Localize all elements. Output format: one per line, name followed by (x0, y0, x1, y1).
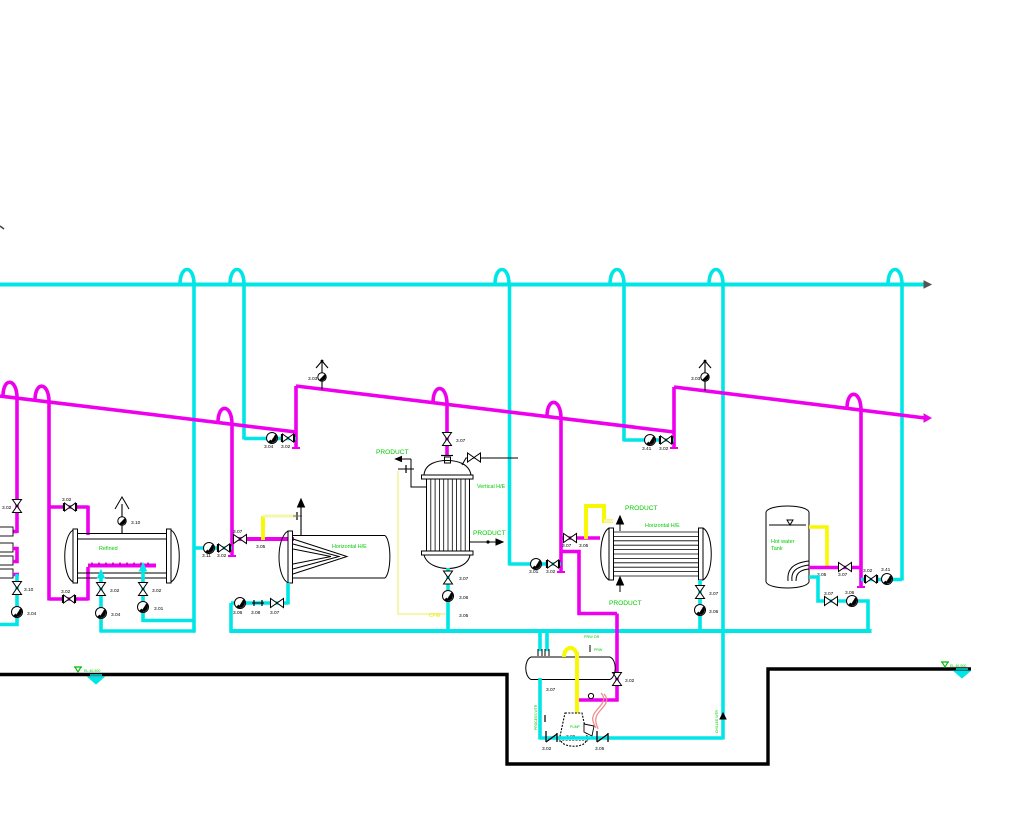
HE2 bottom product label (609, 600, 642, 607)
svg-text:EL.46.500: EL.46.500 (950, 664, 966, 668)
magenta riser stub tick (292, 447, 300, 449)
label 3.07 (456, 438, 466, 444)
HE2 yellow loop (586, 506, 613, 539)
HE2 left tube sheet (609, 528, 614, 580)
U1 right vent valve (468, 453, 481, 462)
CFW pale yellow line (398, 471, 446, 614)
battery limit boundary line (0, 669, 971, 764)
label 3.05 (459, 613, 469, 619)
green rotated note (process water) (534, 704, 538, 730)
header vent arrow at x=322 (308, 360, 328, 390)
green rotated note (chilled water) (715, 709, 719, 733)
svg-text:3.10: 3.10 (131, 520, 141, 526)
instrument tick near drum outlet (544, 715, 546, 722)
vessel V1 left head arc (65, 530, 73, 582)
svg-text:PRODUCT: PRODUCT (609, 600, 642, 607)
pump 3.11 (204, 543, 215, 554)
valve 3.02 y440 (660, 436, 673, 444)
cyan pump line y440 (624, 438, 674, 442)
svg-text:3.05: 3.05 (579, 543, 589, 549)
svg-text:3.06: 3.06 (845, 590, 855, 596)
pump 3.41 y440 (645, 435, 656, 446)
HE2 magenta product path (561, 552, 617, 614)
cyan header jump loop at x=902 (888, 270, 902, 285)
manifold stub rect 1 (0, 527, 13, 536)
magenta drop stub tick x561 (557, 571, 565, 573)
HE2 bottom cyan pipe (698, 580, 702, 633)
tank cyan line to header drop (861, 578, 902, 582)
pump 3.04 y438 (267, 433, 278, 444)
HE1 vent line (300, 507, 302, 535)
HE2 magenta drop x617 (615, 614, 619, 702)
magenta drop pipe x17 (15, 398, 19, 533)
cyan bottom u-run (100, 629, 196, 633)
svg-text:3.04: 3.04 (27, 611, 37, 617)
U1 bottom cyan pipe (446, 568, 450, 633)
tank heating coil (788, 561, 809, 581)
magenta riser at x=674 (672, 387, 676, 448)
label 3.07 (709, 591, 719, 597)
label 3.02 (281, 444, 291, 450)
cyan branch pipe to refined-vessel area (192, 284, 196, 633)
HE1 cyan outlet down (286, 583, 290, 605)
HE1 label (332, 544, 367, 550)
svg-text:3.07: 3.07 (233, 529, 243, 535)
cyan stub1 pipe (99, 575, 103, 632)
HE1 pale yellow horizontal (263, 514, 296, 517)
label 3.02 (2, 505, 12, 511)
HE1 yellow vertical (261, 516, 265, 540)
magenta header loop at x=861 (847, 394, 861, 410)
label 3.05 (817, 572, 827, 578)
magenta riser stub tick 674 (670, 447, 678, 449)
label 3.02 (61, 589, 71, 595)
HE2 top product arrow (617, 516, 624, 531)
HE1 chevron mid (293, 544, 339, 569)
U1 left product arrow (396, 457, 412, 462)
cyan pump line y438 (244, 437, 296, 441)
cyan bottom main header (230, 629, 872, 633)
label 3.07 (233, 529, 243, 535)
svg-text:3.01: 3.01 (529, 569, 539, 575)
vessel V1 left end plate (73, 529, 78, 583)
svg-text:CFW: CFW (429, 613, 441, 619)
drum inlet stub 2 (545, 632, 549, 651)
magenta link to manifold (12, 530, 17, 534)
pump 3.01 stub2 (138, 602, 149, 613)
small circle fitting (588, 693, 593, 698)
magenta header loop at x=232 (218, 408, 232, 424)
valve 3.02 on drop x17 (13, 500, 22, 513)
svg-text:PRODUCT: PRODUCT (473, 530, 506, 537)
cyan branch pipe long (chilled water return) (721, 284, 725, 740)
svg-text:Refined: Refined (99, 546, 118, 552)
label 3.11 (202, 553, 211, 559)
cyan link stub2 to main drop (143, 619, 194, 623)
svg-text:PRW DR: PRW DR (584, 635, 600, 639)
valve 3.02 on branch y507 (64, 503, 77, 511)
label 3.10 (131, 520, 141, 526)
label 3.02 (863, 568, 873, 574)
svg-text:3.05: 3.05 (256, 544, 266, 550)
magenta branch y507 (49, 505, 88, 509)
magenta drop pipe x561 (559, 418, 563, 572)
svg-text:3.03: 3.03 (308, 376, 318, 382)
svg-text:3.02: 3.02 (110, 588, 120, 594)
U1 bottom dome (424, 555, 470, 569)
sparger ticks (92, 563, 148, 566)
U1 left tap lines (398, 459, 426, 487)
svg-text:3.02: 3.02 (2, 505, 12, 511)
svg-text:3.10: 3.10 (24, 587, 34, 593)
tank bottom cyan outlet (809, 577, 868, 632)
svg-text:3.02: 3.02 (659, 446, 669, 452)
svg-text:3.06: 3.06 (459, 595, 469, 601)
HE1 chevron outer (293, 539, 347, 574)
manifold stub rect 3 (0, 556, 13, 565)
tank bottom head (766, 582, 809, 588)
label 3.07 (459, 576, 469, 582)
tank shell sides (766, 512, 809, 582)
pump symbol 3.04 x17 (12, 607, 23, 618)
vessel V1 right head arc (171, 530, 179, 582)
manifold stub rect 4 (0, 569, 13, 578)
tank label (771, 539, 795, 552)
magenta header segment A (0, 396, 296, 432)
HE1 magenta inlet line y539 (232, 537, 294, 541)
pink flex hose (593, 693, 607, 729)
svg-text:3.07: 3.07 (838, 572, 848, 578)
svg-text:3.07: 3.07 (562, 543, 572, 549)
tank magenta inlet (809, 566, 861, 570)
label 3.02 (217, 553, 227, 559)
U1 top dome (424, 461, 471, 476)
label 3.06 (459, 595, 469, 601)
label 3.04 (111, 612, 121, 618)
label 3.01 (529, 569, 539, 575)
HE2 bottom product arrow (617, 577, 624, 592)
svg-text:3.07: 3.07 (546, 687, 556, 693)
magenta drop pipe x49 (47, 402, 51, 601)
svg-text:3.08: 3.08 (251, 610, 261, 616)
label 3.07 (562, 543, 572, 549)
cyan pump line y564 (510, 562, 562, 566)
label 3.07 drum outlet (546, 687, 556, 693)
svg-text:Hot water: Hot water (771, 539, 795, 545)
magenta manifold out link (13, 573, 19, 577)
pump 3.06 HE2 (695, 605, 706, 616)
svg-text:3.07: 3.07 (456, 438, 466, 444)
pump 3.06 HE1 (235, 598, 246, 609)
label 3.02 (625, 678, 635, 684)
magenta riser at x=296 (294, 386, 298, 448)
svg-text:3.02: 3.02 (62, 497, 72, 503)
cyan branch pipe to tank line (900, 284, 904, 581)
check valve 3.02 (546, 731, 557, 742)
drum outlet cyan drop (538, 678, 542, 740)
label 3.10 (24, 587, 34, 593)
drum nozzle flanges (538, 649, 549, 656)
svg-text:3.07: 3.07 (270, 610, 280, 616)
magenta drop stub tick x861 (857, 586, 865, 588)
label 3.05 (595, 746, 605, 752)
HE2 magenta inlet y538 (561, 536, 600, 540)
U1 product label (376, 449, 409, 456)
svg-text:CHILLED WTR: CHILLED WTR (715, 709, 719, 733)
vessel V1 shell lines (78, 534, 167, 579)
header vent arrow at x=705 (691, 360, 711, 391)
vessel V1 vent open arrow (115, 497, 129, 509)
yellow loop over drum (564, 648, 577, 657)
label 3.41 (642, 446, 652, 452)
cyan stub2 arrow into vessel (140, 563, 147, 571)
svg-text:Vertical H/E: Vertical H/E (477, 484, 506, 490)
svg-text:PROCESS WTR: PROCESS WTR (534, 704, 538, 730)
svg-text:Horizontal H/E: Horizontal H/E (645, 523, 680, 529)
vessel V1 right end plate (167, 529, 172, 583)
magenta header loop at x=447 (433, 389, 447, 405)
valve 3.02 stub2 (139, 583, 148, 596)
tank level line (769, 524, 806, 526)
svg-text:3.06: 3.06 (233, 610, 243, 616)
yellow pipe through drum to pump (575, 652, 579, 714)
valve 3.02 y438 (282, 434, 295, 442)
HE1 shell top (293, 535, 386, 537)
drum right cap (610, 657, 615, 680)
svg-text:3.02: 3.02 (542, 746, 552, 752)
magenta drop pipe x232 (230, 424, 234, 556)
valve 3.07 HE1 bottom (271, 599, 284, 608)
label 3.02 (62, 497, 72, 503)
label 3.07 (270, 610, 280, 616)
label 3.02 (110, 588, 120, 594)
U1 tube bundle (427, 479, 470, 551)
magenta drop stub tick x232 (228, 555, 236, 557)
pump 3.04 stub1 (96, 608, 107, 619)
vessel V1 vent line (121, 504, 123, 533)
HE1 chevron inner (293, 549, 331, 564)
magenta header segment B (296, 386, 674, 432)
cyan down pipe x17 (15, 574, 19, 626)
HE1 vent arrow (298, 499, 305, 507)
drum inlet stub 1 (538, 632, 542, 651)
magenta header end arrow (924, 414, 931, 422)
HE2 label (645, 523, 680, 529)
label 3.02 (542, 746, 552, 752)
HE1 cyan bottom line y603 (231, 601, 288, 605)
svg-text:3.02: 3.02 (281, 444, 291, 450)
svg-text:Tank: Tank (771, 546, 783, 552)
cyan header jump loop at x=244 (230, 270, 244, 285)
magenta header loop at x=17 (3, 382, 17, 398)
cyan pump line y548 (194, 546, 232, 550)
svg-text:3.03: 3.03 (691, 376, 701, 382)
svg-text:3.41: 3.41 (881, 567, 891, 573)
svg-text:PRODUCT: PRODUCT (625, 505, 658, 512)
cyan branch pipe to valve line y438 (242, 284, 246, 440)
stray edge mark (0, 226, 4, 229)
valve 3.02 on branch y599 (63, 595, 76, 603)
svg-text:EL.46.500: EL.46.500 (84, 669, 100, 673)
U1 right product arrow (470, 539, 503, 545)
magenta header loop at x=561 (547, 402, 561, 418)
label 3.02 (152, 588, 162, 594)
label 3.07 (838, 572, 848, 578)
svg-text:3.11: 3.11 (202, 553, 211, 559)
U1 label (477, 484, 506, 490)
HE1 tube sheet (288, 531, 293, 583)
magenta pipe up into vessel (86, 567, 90, 601)
label 3.02 (546, 569, 556, 575)
green note PRW DR (584, 635, 600, 639)
svg-text:3.05: 3.05 (459, 613, 469, 619)
tank top head (766, 506, 809, 512)
left boundary marker green (74, 667, 100, 673)
pump 3.09 body (559, 713, 594, 746)
label 3.41 (881, 567, 891, 573)
HE2 tubes (614, 532, 699, 576)
cyan branch pipe to riser-674 line (622, 284, 626, 442)
svg-text:3.02: 3.02 (546, 569, 556, 575)
svg-text:3.02: 3.02 (217, 553, 227, 559)
valve 3.02 y564 (547, 560, 560, 568)
cyan pump discharge run (540, 736, 723, 740)
magenta bottom run to pump area (576, 698, 619, 702)
cyan stub1 arrow into vessel (98, 570, 105, 578)
label 3.05 (579, 543, 589, 549)
U1 right product label (473, 530, 506, 537)
valve 3.07 tank bottom (825, 597, 838, 606)
magenta header segment C (674, 387, 925, 418)
magenta branch y599 (49, 597, 88, 601)
magenta drop pipe x447 (445, 404, 449, 456)
left boundary marker cyan (88, 675, 104, 684)
magenta drop into vessel top (86, 506, 90, 536)
right boundary marker cyan (954, 669, 970, 678)
valve 3.02 stub1 (97, 583, 106, 596)
cyan drop to main (229, 603, 233, 633)
label 3.06 (845, 590, 855, 596)
svg-text:3.02: 3.02 (863, 568, 873, 574)
pump 3.41 tank line (882, 574, 893, 585)
svg-text:3.06: 3.06 (709, 609, 719, 615)
vessel V1 label Refined (99, 546, 118, 552)
CFW label (429, 613, 441, 619)
valve 3.07 on magenta drop 447 (443, 433, 452, 446)
drum left cap (526, 657, 531, 680)
valve 3.02 tank line (865, 575, 878, 583)
cyan header jump loop at x=509 (495, 270, 509, 285)
HE2 top product label (625, 505, 658, 512)
magenta manifold u-link (13, 549, 17, 562)
cyan cooling-water header (0, 283, 925, 287)
cyan stub2 pipe (141, 567, 145, 622)
drum vent tick (590, 645, 603, 652)
drum shell (531, 657, 610, 680)
magenta sparger inside vessel (88, 564, 156, 568)
valve 3.02 on drop x617 (613, 673, 622, 686)
vent instrument circle 3.10 (118, 517, 126, 525)
valve 3.07 HE1 inlet (234, 535, 247, 544)
pump 3.06 tank bottom (847, 596, 858, 607)
valve 3.02 y548 (218, 544, 231, 552)
magenta drop pipe x861 (859, 410, 863, 587)
right boundary marker green (941, 662, 966, 668)
manifold stub rect 2 (0, 543, 13, 552)
svg-text:3.41: 3.41 (642, 446, 652, 452)
label 3.07 (824, 591, 834, 597)
valve 3.07 HE2 (564, 534, 577, 543)
label 3.04 (264, 444, 274, 450)
label 3.04 (27, 611, 37, 617)
label 3.06 (709, 609, 719, 615)
cyan header jump loop at x=194 (180, 270, 194, 285)
U1 top nozzle flange (441, 456, 453, 464)
pump 3.06 U1 (443, 591, 454, 602)
flow arrow on riser 723 (720, 713, 726, 719)
valve 3.07 HE2 bottom (696, 586, 705, 599)
label 3.01 (154, 606, 164, 612)
svg-text:3.02: 3.02 (625, 678, 635, 684)
svg-text:3.02: 3.02 (61, 589, 71, 595)
svg-text:3.04: 3.04 (111, 612, 121, 618)
valve 3.07 U1 bottom (444, 571, 453, 584)
cyan branch pipe to HE2 inlet line (508, 284, 512, 566)
cyan header jump loop at x=723 (709, 270, 723, 285)
cyan header jump loop at x=624 (610, 270, 624, 285)
HE2 right head arc (703, 528, 711, 580)
tank level symbol (787, 520, 793, 525)
label 3.06 (233, 610, 243, 616)
HE1 left head arc (279, 531, 288, 583)
HE1 right head arc (385, 536, 390, 579)
svg-text:3.07: 3.07 (824, 591, 834, 597)
svg-text:3.07: 3.07 (459, 576, 469, 582)
valve 3.07 tank (839, 563, 852, 572)
cyan pipe exit left (0, 623, 19, 627)
svg-text:PRW: PRW (594, 648, 603, 652)
header end arrow (924, 281, 931, 288)
svg-text:3.07: 3.07 (709, 591, 719, 597)
magenta header loop at x=49 (35, 386, 49, 402)
tank yellow pipe (809, 527, 827, 566)
svg-text:3.01: 3.01 (154, 606, 164, 612)
svg-text:3.05: 3.05 (595, 746, 605, 752)
reducer 3.08 (252, 600, 264, 606)
svg-text:Horizontal H/E: Horizontal H/E (332, 544, 367, 550)
svg-text:3.02: 3.02 (152, 588, 162, 594)
U1 bottom flange bar (422, 551, 474, 555)
pump 3.09 labels (566, 725, 581, 740)
check valve 3.05 (597, 731, 608, 742)
label 3.08 (251, 610, 261, 616)
HE2 pale yellow tail (604, 519, 613, 522)
U1 top flange bar (422, 475, 474, 479)
svg-text:PUMP: PUMP (570, 725, 581, 729)
HE1 shell bottom (293, 577, 386, 579)
label 3.02 (659, 446, 669, 452)
HE2 left head arc (601, 528, 609, 580)
svg-text:PRODUCT: PRODUCT (376, 449, 409, 456)
valve 3.10 on cyan x17 (13, 582, 22, 595)
pump 3.01 y564 (531, 559, 542, 570)
HE2 right tube sheet (699, 528, 704, 580)
svg-text:3.04: 3.04 (264, 444, 274, 450)
HE1 tick valve on vent tap (293, 512, 302, 520)
U1 right vent line (462, 458, 518, 465)
label 3.05 (256, 544, 266, 550)
